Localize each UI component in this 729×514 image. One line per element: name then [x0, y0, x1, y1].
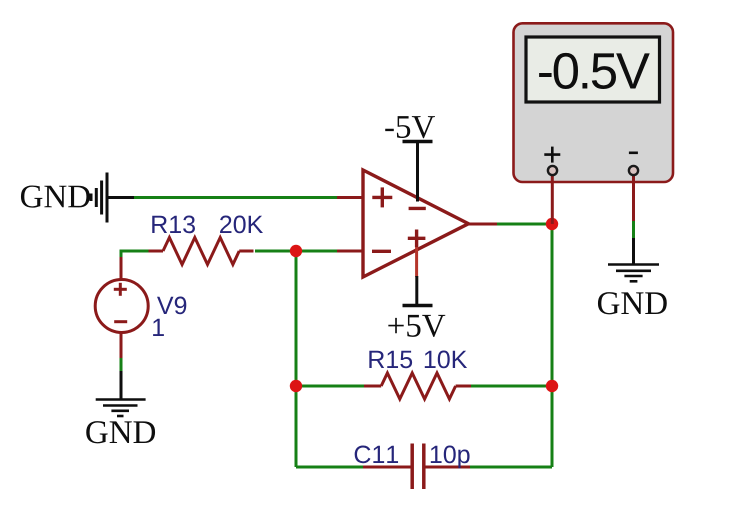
voltmeter reading -0.5V: [539, 53, 650, 89]
voltmeter minus terminal: [629, 166, 638, 175]
voltmeter minus terminal marker: [629, 152, 638, 155]
op-amp non-inverting input pin: [337, 196, 363, 199]
wire (dark red below V9): [120, 333, 123, 360]
wire (black, down to +5V bar): [415, 276, 418, 304]
node GND (text below V9 ground): [86, 421, 155, 443]
wire (green segment under minus terminal): [632, 221, 635, 239]
R13 value 20K: [220, 216, 263, 234]
wire (black segment into right ground): [632, 238, 635, 264]
wire (green, R13 to junction): [255, 250, 296, 253]
C11 value 10p: [431, 446, 470, 469]
op-amp: [363, 170, 469, 277]
op-amp output pin: [469, 223, 498, 226]
R13 label: [152, 216, 195, 234]
ground (below V9): [96, 400, 146, 417]
wire (green, ground to op-amp non-inverting input): [134, 196, 338, 199]
ground (right, below voltmeter): [608, 265, 659, 282]
voltmeter plus terminal marker: [544, 147, 560, 163]
capacitor C11: [412, 444, 424, 490]
node GND (top-left net label text): [21, 185, 90, 207]
wire (black, -5V bar down into op-amp): [416, 142, 419, 202]
voltage source V9: [95, 280, 148, 333]
wire (green, op-amp output to junction): [497, 223, 552, 226]
wire (black segment into ground): [120, 371, 123, 400]
wire (dark red, minus terminal down): [632, 171, 635, 222]
wire (dark red, down to V9 plus terminal): [120, 257, 123, 280]
wire (green, left vertical junction to bottom): [295, 251, 298, 467]
V9 value 1: [153, 319, 164, 336]
voltmeter plus terminal: [548, 166, 557, 175]
wire (green, bottom left horizontal): [296, 466, 364, 469]
wire (dark red, into C11 left plate): [363, 466, 411, 469]
op-amp inverting input pin: [337, 250, 363, 253]
ground (sideways bars, top-left): [91, 173, 107, 223]
junction node (right bottom): [546, 380, 558, 392]
op-amp negative supply marker: [409, 207, 426, 210]
wire (green, R15 to right junction): [471, 385, 552, 388]
node GND (text below right ground): [598, 292, 667, 314]
wire (green, junction to op-amp inverting input): [296, 250, 338, 253]
op-amp positive supply marker: [408, 230, 426, 248]
wire (green, right vertical from output junction down): [551, 224, 554, 467]
junction node (inverting input): [290, 245, 302, 257]
op-amp minus input marker: [372, 250, 391, 253]
wire (green corner going down to V9): [120, 250, 123, 259]
voltmeter body: [514, 23, 674, 182]
resistor R13: [149, 238, 254, 265]
wire (black stub from top-left ground): [108, 196, 135, 199]
power +5V label: [388, 315, 445, 337]
voltmeter display: [526, 37, 660, 102]
power -5V bar: [403, 140, 433, 143]
resistor R15: [364, 373, 472, 399]
wire (dark red, plus terminal down to output junction): [551, 171, 554, 224]
wire (dark red, out of C11 right plate): [426, 466, 472, 469]
power -5V label: [385, 116, 435, 138]
wire (green, R13 left lead to corner): [121, 250, 152, 253]
R15 label: [369, 351, 412, 368]
wire (green segment below V9): [120, 358, 123, 372]
wire (green, bottom right horizontal): [470, 466, 552, 469]
op-amp plus input marker: [372, 187, 392, 207]
C11 label: [355, 446, 398, 464]
V9 label: [157, 297, 186, 315]
junction node (left bottom): [290, 380, 302, 392]
op-amp positive supply pin (bright red): [415, 247, 418, 277]
wire (green, left junction to R15): [296, 385, 364, 388]
R15 value 10K: [425, 351, 467, 369]
junction node (output): [546, 218, 558, 230]
power +5V bar: [403, 304, 433, 307]
